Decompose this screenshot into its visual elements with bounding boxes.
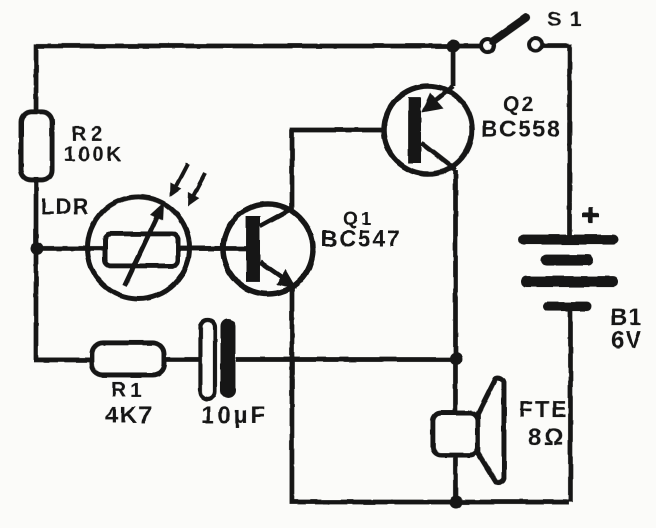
wire right rail lower	[568, 311, 573, 502]
wire right rail upper	[567, 44, 572, 235]
switch S1	[481, 8, 583, 52]
svg-text:10µF: 10µF	[201, 402, 268, 429]
node middle junction	[449, 352, 462, 365]
svg-text:100K: 100K	[64, 143, 124, 166]
speaker FTE	[433, 378, 568, 483]
node top junction	[447, 40, 460, 53]
wire left rail upper	[34, 44, 39, 115]
wire capacitor to middle node	[236, 357, 456, 362]
svg-text:6V: 6V	[611, 327, 642, 354]
capacitor C1 10uF	[200, 319, 268, 429]
wire Q1 emitter / bottom rail	[292, 286, 569, 502]
svg-text:8Ω: 8Ω	[528, 424, 567, 451]
svg-text:Q2: Q2	[503, 93, 535, 116]
svg-text:LDR: LDR	[41, 194, 89, 219]
svg-text:BC558: BC558	[481, 116, 562, 142]
svg-text:4K7: 4K7	[105, 402, 154, 429]
wire Q2 emitter up	[451, 44, 456, 86]
svg-text:S 1: S 1	[547, 8, 583, 31]
light arrow 2	[188, 173, 206, 206]
resistor R1	[92, 343, 164, 429]
node bottom junction	[449, 496, 462, 509]
transistor Q1	[190, 204, 402, 294]
wire Q1 collector to Q2 base	[292, 130, 408, 209]
svg-text:FTE: FTE	[519, 396, 568, 422]
light arrow 1	[170, 164, 188, 197]
LDR	[37, 194, 246, 299]
wire speaker to bottom rail	[453, 455, 458, 502]
node left junction	[31, 242, 44, 255]
wire Q2 collector down	[453, 170, 458, 413]
wire top rail	[36, 44, 481, 49]
battery B1	[523, 207, 643, 354]
svg-text:BC547: BC547	[321, 225, 402, 251]
resistor R2	[21, 112, 52, 180]
transistor Q2	[384, 86, 562, 174]
wire left rail lower	[34, 177, 92, 360]
wire R1 to capacitor	[164, 357, 200, 362]
svg-text:R1: R1	[111, 379, 146, 402]
